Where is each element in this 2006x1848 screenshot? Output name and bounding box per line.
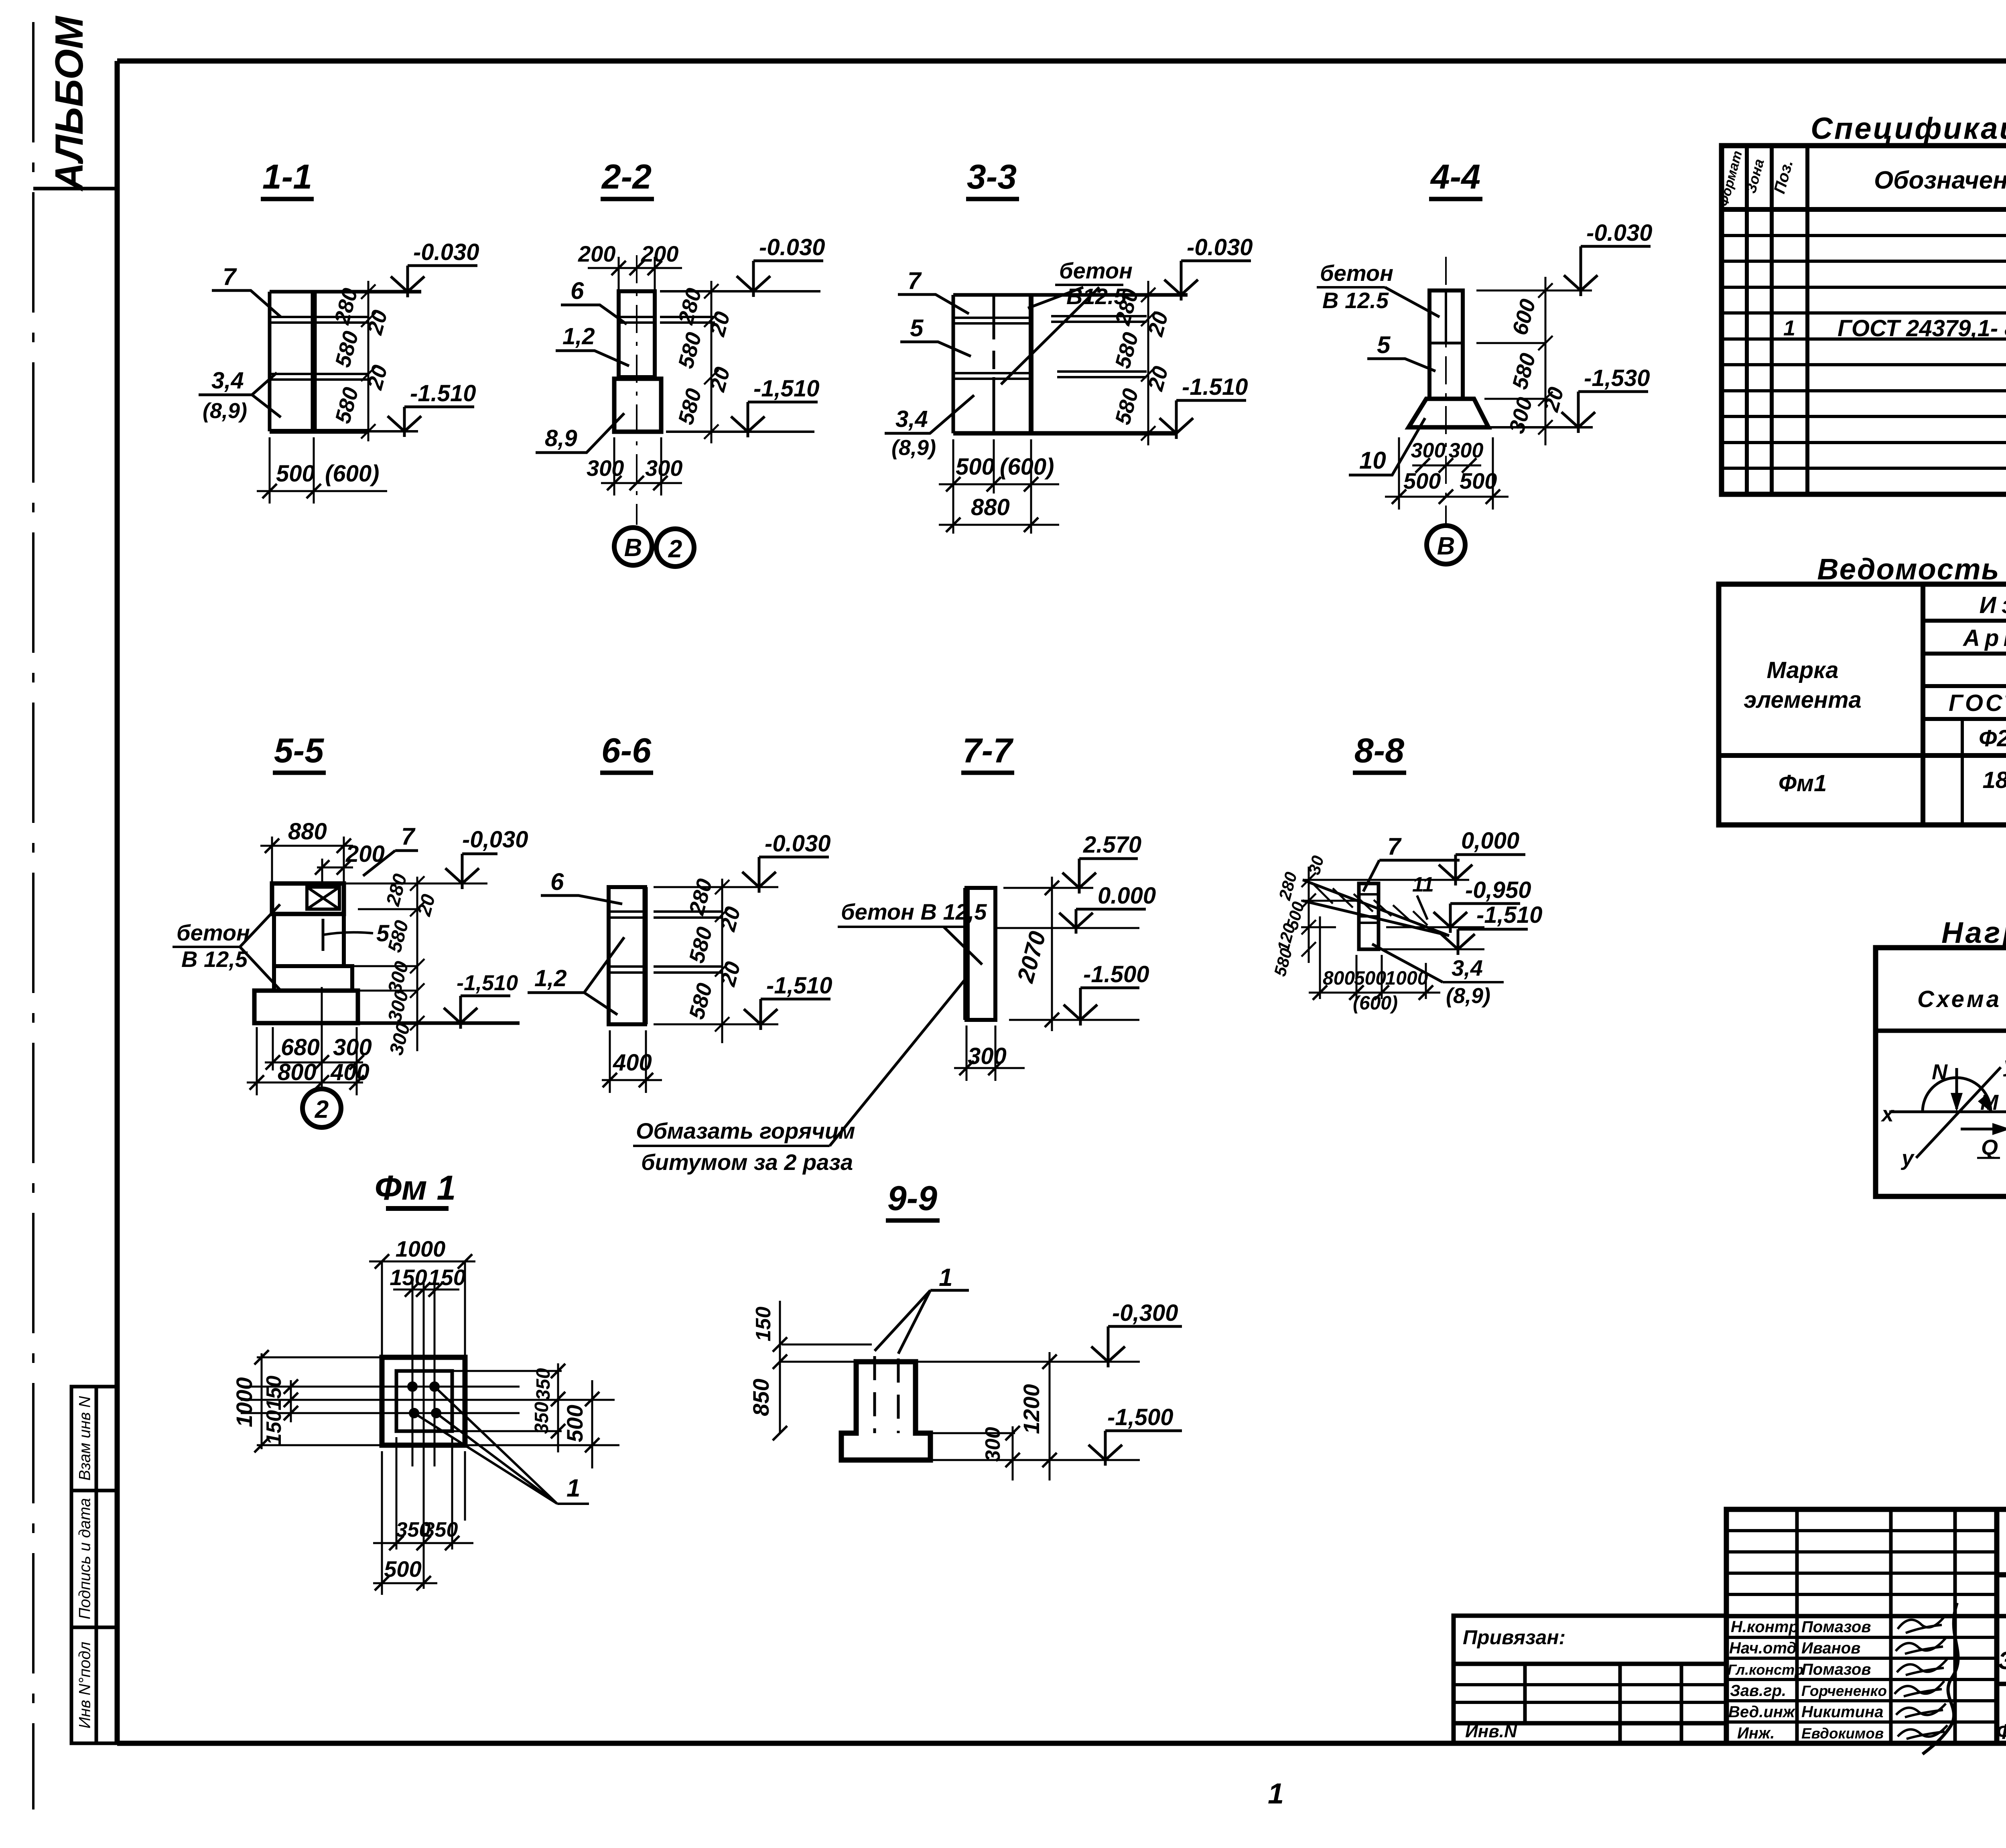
svg-text:9-9: 9-9 [887, 1179, 937, 1218]
svg-text:x: x [1880, 1102, 1894, 1126]
loads table grid [1876, 948, 2006, 1196]
svg-text:1-1: 1-1 [262, 158, 312, 196]
svg-text:Ведомость расхода стали на: Ведомость расхода стали на 1 элемент,кг [1817, 552, 2006, 586]
svg-text:(8,9): (8,9) [1446, 984, 1490, 1008]
note Обмазать горячим битумом за 2 раза [633, 978, 966, 1175]
section title 4-4 [1429, 158, 1482, 199]
svg-text:350: 350 [533, 1368, 554, 1400]
svg-text:300: 300 [587, 455, 624, 481]
svg-text:300: 300 [1449, 439, 1484, 462]
svg-text:3,4: 3,4 [895, 406, 928, 432]
svg-text:300: 300 [968, 1043, 1007, 1069]
plan title Фм 1 [375, 1169, 456, 1208]
svg-text:880: 880 [288, 818, 327, 845]
svg-text:-1.500: -1.500 [1083, 961, 1149, 987]
svg-text:В 12.5: В 12.5 [1322, 288, 1389, 313]
svg-text:850: 850 [748, 1379, 774, 1416]
svg-text:7-7: 7-7 [962, 731, 1014, 770]
svg-text:Н.контр: Н.контр [1731, 1618, 1799, 1636]
svg-text:1: 1 [939, 1264, 952, 1292]
svg-text:Привязан:: Привязан: [1463, 1626, 1565, 1649]
elevation -1,510 (5-5) [444, 971, 518, 1029]
svg-text:-0,950: -0,950 [1465, 877, 1531, 903]
left dim 150 850 (9-9) [748, 1301, 787, 1440]
steel table grid [1719, 584, 2006, 825]
section 1-1 vertical dim line [361, 281, 376, 441]
leader 1,2 (2-2) [556, 323, 629, 366]
svg-text:у: у [1900, 1146, 1915, 1170]
бетон В 12,5 note (5-5) [173, 904, 280, 990]
bottom dim 300 300 (2-2) [587, 437, 682, 496]
svg-text:5: 5 [1377, 331, 1391, 358]
svg-text:350: 350 [531, 1402, 552, 1434]
svg-text:В12.5: В12.5 [1066, 284, 1127, 309]
svg-text:1000: 1000 [231, 1377, 257, 1428]
elevation -0.030 (2-2) [737, 234, 825, 297]
bottom dims 800 500 1000 (600) (8-8) [1309, 916, 1440, 1014]
leader 10 (4-4) [1349, 418, 1425, 475]
svg-text:АЛЬБОМ: АЛЬБОМ [47, 15, 91, 192]
svg-text:500: 500 [562, 1405, 587, 1442]
svg-text:(8,9): (8,9) [203, 399, 247, 423]
footing 2-2 [614, 379, 661, 432]
steel table data row [1779, 767, 2006, 796]
left strip boxes (Взам инв N / Подпись и дата / Инв N подл) [71, 1387, 117, 1743]
svg-text:Инж.: Инж. [1737, 1724, 1775, 1742]
column 2-2 [619, 291, 715, 377]
svg-text:3,4: 3,4 [1452, 955, 1483, 981]
section 7-7 body [966, 888, 995, 1020]
svg-text:Горчененко: Горчененко [1801, 1683, 1887, 1699]
spec table rows [1783, 262, 2006, 443]
svg-text:N: N [1932, 1060, 1948, 1084]
svg-text:Гл.констр: Гл.констр [1728, 1661, 1803, 1678]
leader 5 (3-3) [900, 315, 971, 356]
svg-text:8-8: 8-8 [1354, 731, 1404, 770]
column 4-4 [1429, 290, 1463, 399]
svg-text:Иванов: Иванов [1801, 1639, 1860, 1657]
svg-text:800: 800 [278, 1059, 317, 1085]
svg-text:2: 2 [315, 1096, 329, 1123]
бетон В12.5 note (3-3) [1001, 258, 1133, 384]
bottom dims 680 300 / 800 400 (5-5) [247, 1027, 372, 1095]
svg-text:Обозначение: Обозначение [1874, 167, 2006, 194]
right dims 350 350 500 (plan) [452, 1363, 619, 1468]
svg-text:2-2: 2-2 [601, 158, 652, 196]
section title 1-1 [261, 158, 314, 199]
object cell Здание автостанции [1997, 1616, 2006, 1743]
footing trapezoid 4-4 [1409, 399, 1488, 427]
dashed bolts (9-9) [875, 1356, 898, 1433]
svg-text:Фм 1: Фм 1 [375, 1169, 456, 1207]
elevation -0.300 (9-9) [1091, 1300, 1182, 1367]
svg-text:10: 10 [1359, 447, 1386, 474]
elevation -1.510 (3-3) [1159, 374, 1248, 439]
svg-text:элемента: элемента [1744, 687, 1862, 713]
svg-text:-1,510: -1,510 [753, 376, 819, 402]
section 6-6 body [609, 887, 645, 1024]
svg-text:-0.030: -0.030 [1187, 234, 1253, 260]
svg-text:1: 1 [1268, 1778, 1284, 1810]
svg-text:1000: 1000 [396, 1236, 446, 1261]
svg-text:150: 150 [262, 1376, 286, 1411]
dim 2070 (7-7) [1012, 877, 1059, 1031]
leader 7 (1-1) [212, 263, 281, 317]
svg-text:800: 800 [1323, 968, 1355, 989]
svg-text:Нагрузки на фундамент: Нагрузки на фундамент [1941, 916, 2006, 949]
svg-text:Фм1: Фм1 [1779, 770, 1827, 796]
svg-text:500: 500 [384, 1556, 421, 1582]
svg-text:500: 500 [956, 454, 995, 480]
left dim stack (8-8) [1301, 867, 1316, 963]
dim line right (5-5) [344, 876, 520, 1051]
svg-text:В 12,5: В 12,5 [181, 946, 248, 972]
бетон В 12.5 note (4-4) [1317, 260, 1440, 317]
axis circle B (4-4) [1427, 526, 1465, 564]
leader 5 with bolt (5-5) [323, 919, 390, 951]
svg-text:1,2: 1,2 [562, 323, 595, 349]
elevation -1,510 (6-6) [744, 973, 832, 1030]
svg-text:Спецификация фундамента Фм1: Спецификация фундамента Фм1 [1811, 112, 2006, 146]
svg-text:Нач.отд: Нач.отд [1729, 1639, 1797, 1657]
leader 3,4 (8,9) (8-8) [1372, 944, 1504, 1008]
svg-text:18,1: 18,1 [1983, 767, 2006, 793]
svg-text:7: 7 [1387, 833, 1402, 860]
elevation 0.000 (8-8) [1439, 828, 1525, 885]
section title 5-5 [273, 731, 326, 773]
svg-text:150: 150 [262, 1410, 286, 1445]
title block outer [1726, 1509, 2006, 1743]
leader 1,2 (6-6) [528, 937, 624, 1015]
spec table grid [1722, 146, 2006, 494]
bottom dim 300 (7-7) [954, 1026, 1025, 1081]
bottom dim 500 (600) 880 (3-3) [939, 439, 1059, 534]
svg-text:6: 6 [571, 277, 584, 304]
svg-text:-0,300: -0,300 [1112, 1300, 1178, 1326]
svg-text:Марка: Марка [1766, 657, 1838, 683]
svg-text:Схема: Схема [1917, 986, 2002, 1012]
svg-text:150: 150 [390, 1265, 427, 1290]
axis line 4-4 [1445, 257, 1447, 524]
svg-text:Q: Q [1981, 1135, 1998, 1160]
plan squares [382, 1357, 465, 1445]
svg-text:(600): (600) [1000, 454, 1054, 480]
dim line right (2-2) [704, 281, 719, 443]
level line bottom (4-4) [1488, 426, 1593, 428]
leader 8,9 (2-2) [536, 413, 624, 453]
svg-text:-0.030: -0.030 [765, 831, 830, 857]
elevation -1.500 (7-7) [1064, 961, 1149, 1026]
svg-text:Изделия закладные: Изделия закладные [1980, 592, 2006, 618]
elevation -1.510 (8-8) [1441, 902, 1542, 955]
leader 3,4 (8,9) (3-3) [885, 395, 974, 460]
elevation -1.510 (2-2) [731, 376, 819, 437]
svg-text:300: 300 [333, 1034, 372, 1060]
svg-text:500: 500 [1354, 968, 1386, 989]
svg-text:500: 500 [276, 461, 315, 487]
elevation -0.030 (5-5) [445, 827, 528, 889]
section 3-3 body [953, 295, 1188, 433]
svg-text:-0.030: -0.030 [413, 239, 479, 265]
big doc number cell [1997, 1525, 2006, 1576]
svg-text:-1,510: -1,510 [457, 971, 518, 995]
bottom dim 400 (6-6) [602, 1030, 662, 1093]
svg-text:Подпись и дата: Подпись и дата [76, 1498, 94, 1620]
bolt axes horizontal (plan) [241, 1387, 615, 1413]
svg-text:3-3: 3-3 [967, 158, 1017, 196]
leader 7 (3-3) [898, 267, 969, 314]
svg-text:-1,500: -1,500 [1107, 1404, 1173, 1430]
dim 1200 (9-9) [1019, 1352, 1057, 1480]
svg-text:2.570: 2.570 [1083, 832, 1141, 858]
loads table headers [1917, 954, 2006, 1022]
leader 6 (2-2) [561, 277, 627, 324]
svg-text:-1.510: -1.510 [410, 380, 476, 406]
left dims 1000 / 150 150 (plan) [231, 1350, 382, 1452]
project name cell [1997, 1578, 2006, 1619]
dim 300 (9-9) [930, 1426, 1020, 1480]
ground level lines (9-9) [780, 1344, 1140, 1362]
svg-text:битумом за 2 раза: битумом за 2 раза [641, 1149, 853, 1175]
svg-text:-0.030: -0.030 [1586, 220, 1652, 246]
svg-text:0,000: 0,000 [1461, 828, 1519, 854]
sheet title cell [1996, 1686, 2006, 1744]
svg-text:-0.030: -0.030 [759, 234, 825, 260]
svg-text:-1.510: -1.510 [1182, 374, 1248, 400]
svg-text:бетон: бетон [1059, 258, 1133, 283]
leader 1 (9-9) [875, 1264, 969, 1354]
elevation 2.570 (7-7) [1062, 832, 1141, 894]
axis line 2-2 [636, 255, 638, 525]
elevation -1,500 (9-9) [1015, 1404, 1182, 1466]
elevation -0.030 (6-6) [742, 831, 830, 893]
section title 7-7 [961, 731, 1014, 773]
section title 2-2 [601, 158, 654, 199]
svg-text:(600): (600) [325, 461, 379, 487]
floating joint lines right (3-3) [1051, 316, 1147, 377]
svg-text:400: 400 [330, 1059, 370, 1085]
svg-text:880: 880 [971, 494, 1010, 520]
svg-text:Арматура класса: Арматура класса [1962, 625, 2006, 651]
leader 6 (6-6) [541, 868, 622, 904]
section title 8-8 [1353, 731, 1406, 773]
section 8-8 body column [1359, 883, 1379, 949]
leader 1 (plan) [414, 1387, 589, 1504]
АЛЬБОМ vertical label [33, 15, 117, 192]
signature rows text [1728, 1618, 1887, 1742]
svg-text:В: В [1437, 532, 1455, 560]
svg-text:3,4: 3,4 [211, 368, 244, 394]
top dims 880 / 200 (5-5) [260, 818, 385, 885]
joint lines right (6-6) [654, 887, 778, 1024]
title block left grid columns [1797, 1509, 1955, 1743]
section 1-1 body [270, 292, 421, 431]
bottom dims 350 350 / 500 (plan) [373, 1437, 473, 1595]
section title 9-9 [886, 1179, 940, 1220]
svg-text:бетон: бетон [1320, 260, 1393, 286]
title block left grid rows [1726, 1531, 1997, 1722]
elevation -0.030 (3-3) [1164, 234, 1253, 301]
svg-text:Инв N°подл: Инв N°подл [76, 1642, 94, 1728]
svg-text:Взам инв N: Взам инв N [76, 1396, 94, 1481]
svg-text:5: 5 [910, 315, 924, 341]
elevation 0.000 (7-7) [1059, 883, 1156, 934]
svg-text:Инв.N: Инв.N [1465, 1722, 1517, 1741]
outer left dashed line [32, 22, 35, 1809]
svg-text:бетон В 12,5: бетон В 12,5 [841, 899, 987, 924]
leader 7 (8-8) [1363, 833, 1460, 892]
dim line right (6-6) [715, 879, 729, 1043]
svg-text:6: 6 [550, 868, 564, 895]
svg-text:Зав.гр.: Зав.гр. [1730, 1682, 1786, 1700]
svg-text:5-5: 5-5 [274, 731, 324, 770]
top dim 200 200 (2-2) [578, 241, 682, 291]
leader 7 (5-5) [363, 823, 418, 876]
бетон В 12,5 note (7-7) [838, 899, 987, 965]
svg-text:Фундамент Фм 1. Сечения: Фундамент Фм 1. Сечения [1996, 1720, 2006, 1744]
svg-text:1: 1 [1783, 316, 1795, 340]
svg-text:Ф24: Ф24 [1979, 725, 2006, 751]
loads scheme diagram [1880, 1053, 2006, 1170]
elevation -0.030 (4-4) [1564, 220, 1652, 296]
section title 3-3 [966, 158, 1019, 199]
svg-text:8,9: 8,9 [545, 425, 577, 451]
elevation -1.530 (4-4) [1561, 365, 1650, 433]
hatched ramp (8-8) [1303, 880, 1449, 936]
dim line right (3-3) [1141, 281, 1155, 445]
svg-text:0.000: 0.000 [1098, 883, 1156, 909]
svg-text:1,2: 1,2 [534, 965, 567, 991]
steel table headers [1744, 592, 2006, 751]
svg-text:(600): (600) [1353, 993, 1398, 1014]
svg-text:680: 680 [281, 1034, 320, 1060]
elevation -0.950 (8-8) [1433, 877, 1531, 933]
svg-text:7: 7 [401, 823, 416, 850]
bolt axes vertical (plan) [412, 1280, 434, 1589]
svg-text:7: 7 [908, 267, 922, 294]
bottom dims 300 300 / 500 500 (4-4) [1385, 437, 1509, 510]
svg-text:ГОСТ 5781-82: ГОСТ 5781-82 [1949, 690, 2006, 716]
svg-text:Евдокимов: Евдокимов [1801, 1725, 1884, 1742]
svg-text:7: 7 [223, 263, 237, 290]
svg-text:6-6: 6-6 [601, 731, 652, 770]
axis circles B 2 (2-2) [614, 528, 694, 567]
axis line + circle 2 (5-5) [303, 987, 341, 1127]
leader 3,4 (8,9) (1-1) [199, 368, 281, 423]
svg-text:1: 1 [566, 1474, 580, 1502]
leader 11 (8-8) [1412, 873, 1434, 920]
svg-text:Здание автостанции: Здание автостанции [1998, 1647, 2006, 1675]
levels (7-7) [997, 888, 1139, 1020]
svg-text:11: 11 [1412, 873, 1434, 896]
svg-text:150: 150 [752, 1307, 775, 1342]
svg-text:-1,510: -1,510 [1476, 902, 1542, 928]
svg-text:Помазов: Помазов [1801, 1618, 1871, 1636]
level lines (2-2) [660, 291, 820, 432]
top dims 1000 / 150 150 (plan) [369, 1236, 475, 1357]
leader 5 (4-4) [1367, 331, 1435, 371]
svg-text:В: В [624, 534, 642, 562]
svg-text:1200: 1200 [1019, 1384, 1044, 1434]
elevation -0.030 (1-1) [391, 239, 479, 297]
svg-text:ГОСТ 24379,1- 80: ГОСТ 24379,1- 80 [1837, 315, 2006, 341]
svg-text:500: 500 [1403, 468, 1441, 493]
svg-text:Никитина: Никитина [1801, 1703, 1883, 1721]
svg-text:бетон: бетон [177, 920, 250, 945]
svg-text:-0,030: -0,030 [462, 827, 528, 853]
svg-text:М: М [1980, 1091, 1999, 1115]
section 5-5 body [254, 883, 358, 1023]
elevation -1.510 (1-1) [388, 380, 476, 437]
svg-text:-1,530: -1,530 [1584, 365, 1650, 391]
section 9-9 body [841, 1362, 930, 1460]
section title 6-6 [600, 731, 653, 773]
svg-text:Вед.инж: Вед.инж [1728, 1703, 1796, 1721]
svg-text:500: 500 [1460, 468, 1497, 493]
svg-text:-1,510: -1,510 [766, 973, 832, 999]
spec table headers [1716, 149, 2006, 208]
svg-text:Обмазать горячим: Обмазать горячим [636, 1118, 855, 1143]
signatures squiggles [1894, 1603, 1958, 1754]
svg-text:4-4: 4-4 [1430, 158, 1480, 196]
svg-text:2: 2 [668, 535, 682, 563]
svg-text:300: 300 [981, 1427, 1005, 1462]
svg-text:Помазов: Помазов [1801, 1661, 1871, 1678]
svg-text:(8,9): (8,9) [891, 436, 936, 460]
levels (8-8) [1301, 880, 1484, 949]
svg-text:200: 200 [578, 241, 615, 266]
bolt dots (plan) [407, 1381, 441, 1418]
bottom dim 500 (600) (1-1) [257, 437, 387, 504]
dim line right (4-4) [1476, 277, 1592, 445]
svg-text:300: 300 [645, 455, 682, 481]
